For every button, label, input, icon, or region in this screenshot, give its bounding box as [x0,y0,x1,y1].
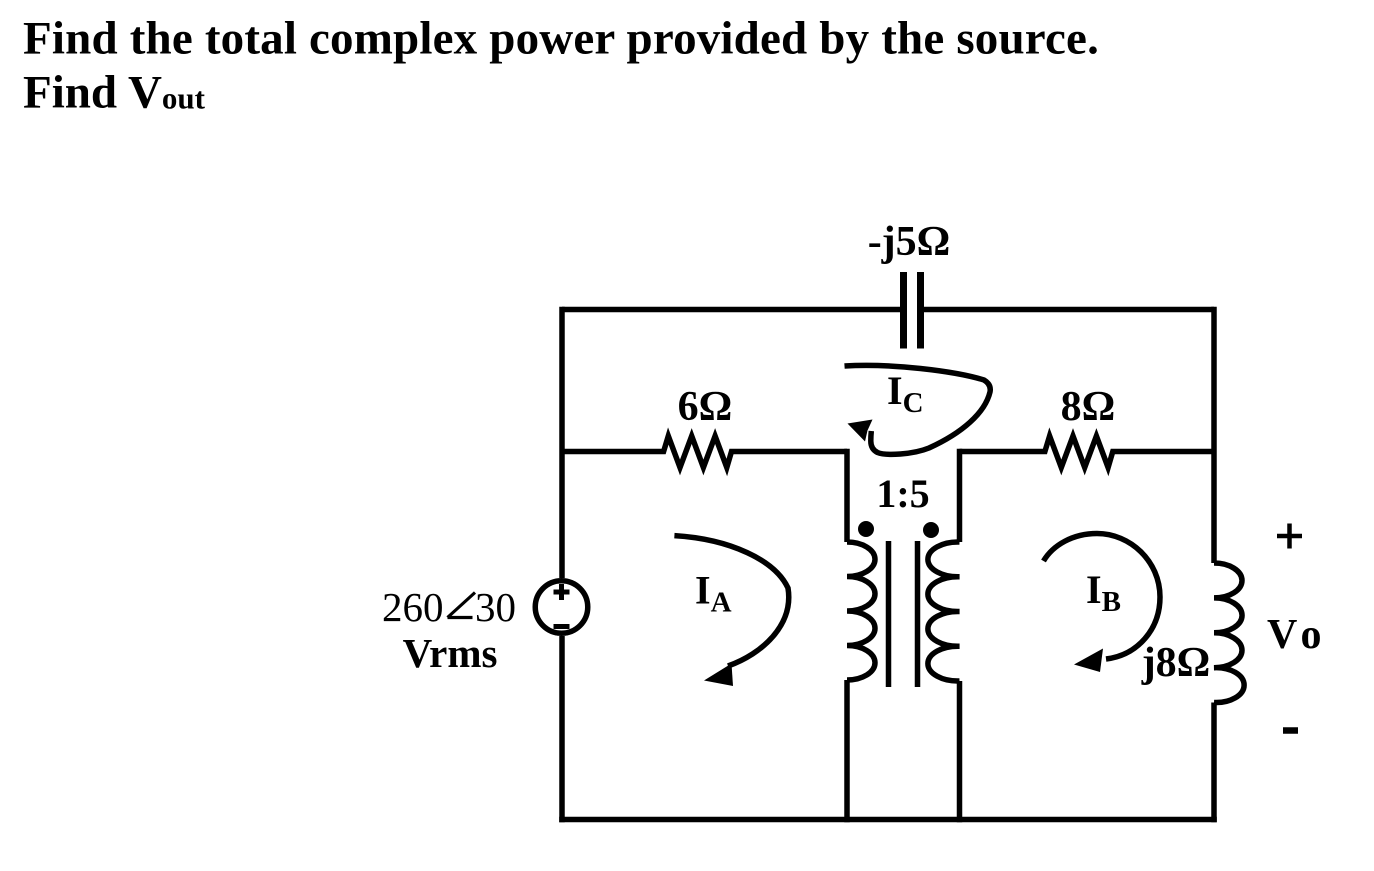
svg-text:Vo: Vo [1267,612,1321,658]
voltage source value 260&ang;30 [382,584,516,630]
svg-text:30: 30 [475,584,516,630]
svg-text:260: 260 [382,584,444,630]
transformer T1 secondary polarity dot [923,522,939,538]
voltage source plus sign [554,584,570,600]
svg-text:j8Ω: j8Ω [1141,640,1211,686]
wire: top left segment [562,307,900,313]
capacitor C1 plates [904,272,921,349]
transformer T1 primary coil [847,542,875,680]
inductor L1 j8ohm coil [1214,563,1244,703]
transformer T1 primary polarity dot [858,521,874,537]
svg-text:8Ω: 8Ω [1061,384,1116,430]
svg-text:Find Vout: Find Vout [23,67,206,119]
svg-text:6Ω: 6Ω [678,384,733,430]
voltage source VS circle [535,581,588,634]
svg-text:1:5: 1:5 [876,471,929,516]
wire: left vertical lower [559,636,565,822]
mesh current IA arrow [674,536,788,686]
output polarity minus [1283,727,1298,734]
transformer T1 secondary coil [928,542,960,681]
resistor R1 6ohm branch wire and zigzag [562,436,847,468]
wire: right vertical lower [1211,703,1217,823]
svg-text:-j5Ω: -j5Ω [868,219,951,265]
transformer T1 secondary vertical wire upper [957,449,963,542]
wire: right vertical upper [1211,307,1217,563]
svg-text:Find the total complex power p: Find the total complex power provided by… [23,13,1099,65]
svg-text:Vrms: Vrms [403,630,498,676]
transformer T1 core lines [889,541,918,687]
wire: top right segment [924,307,1214,313]
svg-text:IA: IA [695,568,732,619]
transformer T1 primary vertical wire upper [844,449,850,542]
wire: left vertical upper [559,307,565,578]
wire: bottom [559,817,1217,823]
svg-text:IB: IB [1086,567,1121,618]
output polarity plus [1277,524,1302,549]
transformer T1 primary vertical wire lower [844,680,850,822]
svg-text:IC: IC [887,368,924,419]
mesh current IB arrow [1044,534,1161,673]
mesh current IC arrow [845,365,991,454]
resistor R2 8ohm branch wire and zigzag [960,436,1215,468]
transformer T1 secondary vertical wire lower [957,681,963,822]
voltage source minus sign [554,624,570,629]
